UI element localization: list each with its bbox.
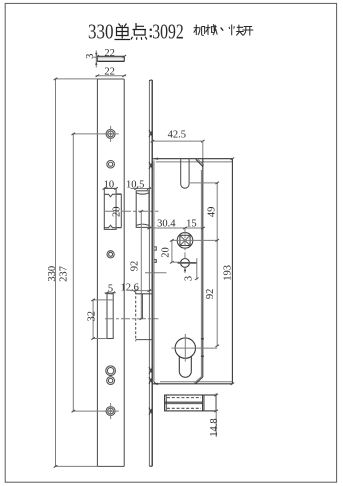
- svg-text:3092: 3092: [152, 20, 184, 44]
- case left edge tabs: [154, 247, 156, 262]
- svg-text:32: 32: [87, 311, 98, 322]
- svg-text:92: 92: [129, 261, 140, 272]
- svg-text:14.8: 14.8: [209, 418, 220, 436]
- case top edge with left arrow: [153, 158, 233, 162]
- svg-text:330: 330: [47, 266, 58, 282]
- spindle body: [165, 395, 216, 411]
- deadbolt side view: [136, 292, 153, 341]
- svg-text:22: 22: [104, 48, 115, 59]
- dim 49 ext (slot center): [190, 182, 218, 184]
- dim 3 (bar thickness): [85, 51, 98, 68]
- euro cylinder hole: [172, 334, 218, 377]
- faceplate plate outline: [97, 79, 124, 466]
- svg-text:237: 237: [59, 266, 70, 282]
- dim 92 (side, latch to deadbolt): [129, 210, 143, 320]
- hanzi 点: [131, 23, 147, 40]
- follower (square hub): [177, 228, 193, 252]
- screw mark on strip y=133.5: [149, 130, 153, 137]
- case right edge (193 dim line): [223, 158, 235, 386]
- title text 330单点：3092: [88, 20, 253, 44]
- svg-text:92: 92: [205, 289, 216, 300]
- pin hole: [178, 253, 197, 268]
- dim 330: [47, 78, 98, 468]
- latch slot front view: [104, 188, 121, 229]
- dim 10 (latch slot): [103, 179, 118, 190]
- latch side view: [136, 191, 149, 228]
- dim 237: [59, 133, 106, 413]
- latch break zigzag bottom: [104, 225, 121, 228]
- hanzi 开: [242, 27, 253, 36]
- dim 32 (deadbolt): [87, 299, 114, 340]
- hole circle (110.6,164.2): [107, 160, 115, 168]
- hole circle (110.6,370.7): [106, 366, 116, 376]
- svg-text:12.6: 12.6: [121, 282, 139, 293]
- deadbolt slot front view: [107, 294, 113, 339]
- dim 5 (deadbolt slot width): [105, 284, 117, 295]
- inner contour (double line with bevels): [194, 159, 204, 384]
- dim 22 (plate width): [96, 66, 127, 77]
- screw mark on strip y=370.6: [149, 367, 153, 374]
- hanzi 机: [194, 25, 205, 36]
- subtitle 机械、快开: [194, 24, 254, 35]
- screw hole top (crosshair): [104, 126, 118, 142]
- mystery ext line y=272.8: [145, 272, 167, 274]
- contour marks (cylinder screws): [201, 339, 204, 356]
- screw hole bottom (crosshair): [104, 403, 118, 419]
- screw mark on strip y=411.2: [149, 408, 153, 415]
- U-slot at case top: [181, 159, 189, 189]
- latch centerline: [104, 210, 159, 212]
- svg-text:49: 49: [207, 207, 218, 218]
- deadbolt centerline: [105, 318, 159, 320]
- svg-text:3: 3: [183, 276, 194, 281]
- faceplate section bar: [97, 56, 124, 61]
- hole circle (110.6,380.6): [107, 377, 115, 385]
- dim 20 (follower to pin): [160, 239, 181, 263]
- hanzi 械: [206, 24, 218, 35]
- dim 20 (latch height, front): [112, 194, 123, 228]
- svg-text:3: 3: [85, 54, 96, 59]
- dim 49 / 92 line: [205, 182, 219, 347]
- svg-text:20: 20: [112, 207, 123, 218]
- case bottom edge with left arrow: [153, 382, 233, 385]
- svg-text:330: 330: [88, 20, 114, 44]
- dim 12.6 (deadbolt throw): [121, 282, 153, 293]
- svg-text:20: 20: [160, 247, 171, 258]
- dunhao 、: [221, 28, 223, 31]
- hanzi 快: [229, 25, 244, 36]
- screw mark on strip y=165.5: [149, 162, 153, 169]
- follower crosshair / 49-92 ext: [172, 239, 218, 241]
- latch break zigzag top: [104, 194, 121, 197]
- screw mark on strip y=380.2: [149, 377, 153, 384]
- dim 22 (bar width): [95, 48, 126, 59]
- dim 3 (pin): [183, 258, 198, 281]
- strip: [149, 80, 152, 466]
- svg-text:193: 193: [223, 265, 234, 281]
- hanzi 单: [115, 24, 131, 40]
- svg-text:42.5: 42.5: [168, 129, 186, 140]
- dim 10.5 (latch protrusion): [126, 179, 152, 190]
- hole circle (110.6,254.3): [107, 251, 114, 258]
- case left edge: [154, 161, 156, 384]
- dim 30.4 / 15: [147, 218, 205, 229]
- dim 42.5 (backset to contour): [151, 129, 205, 159]
- dim 14.8: [209, 393, 220, 437]
- fullwidth colon: [150, 29, 152, 31]
